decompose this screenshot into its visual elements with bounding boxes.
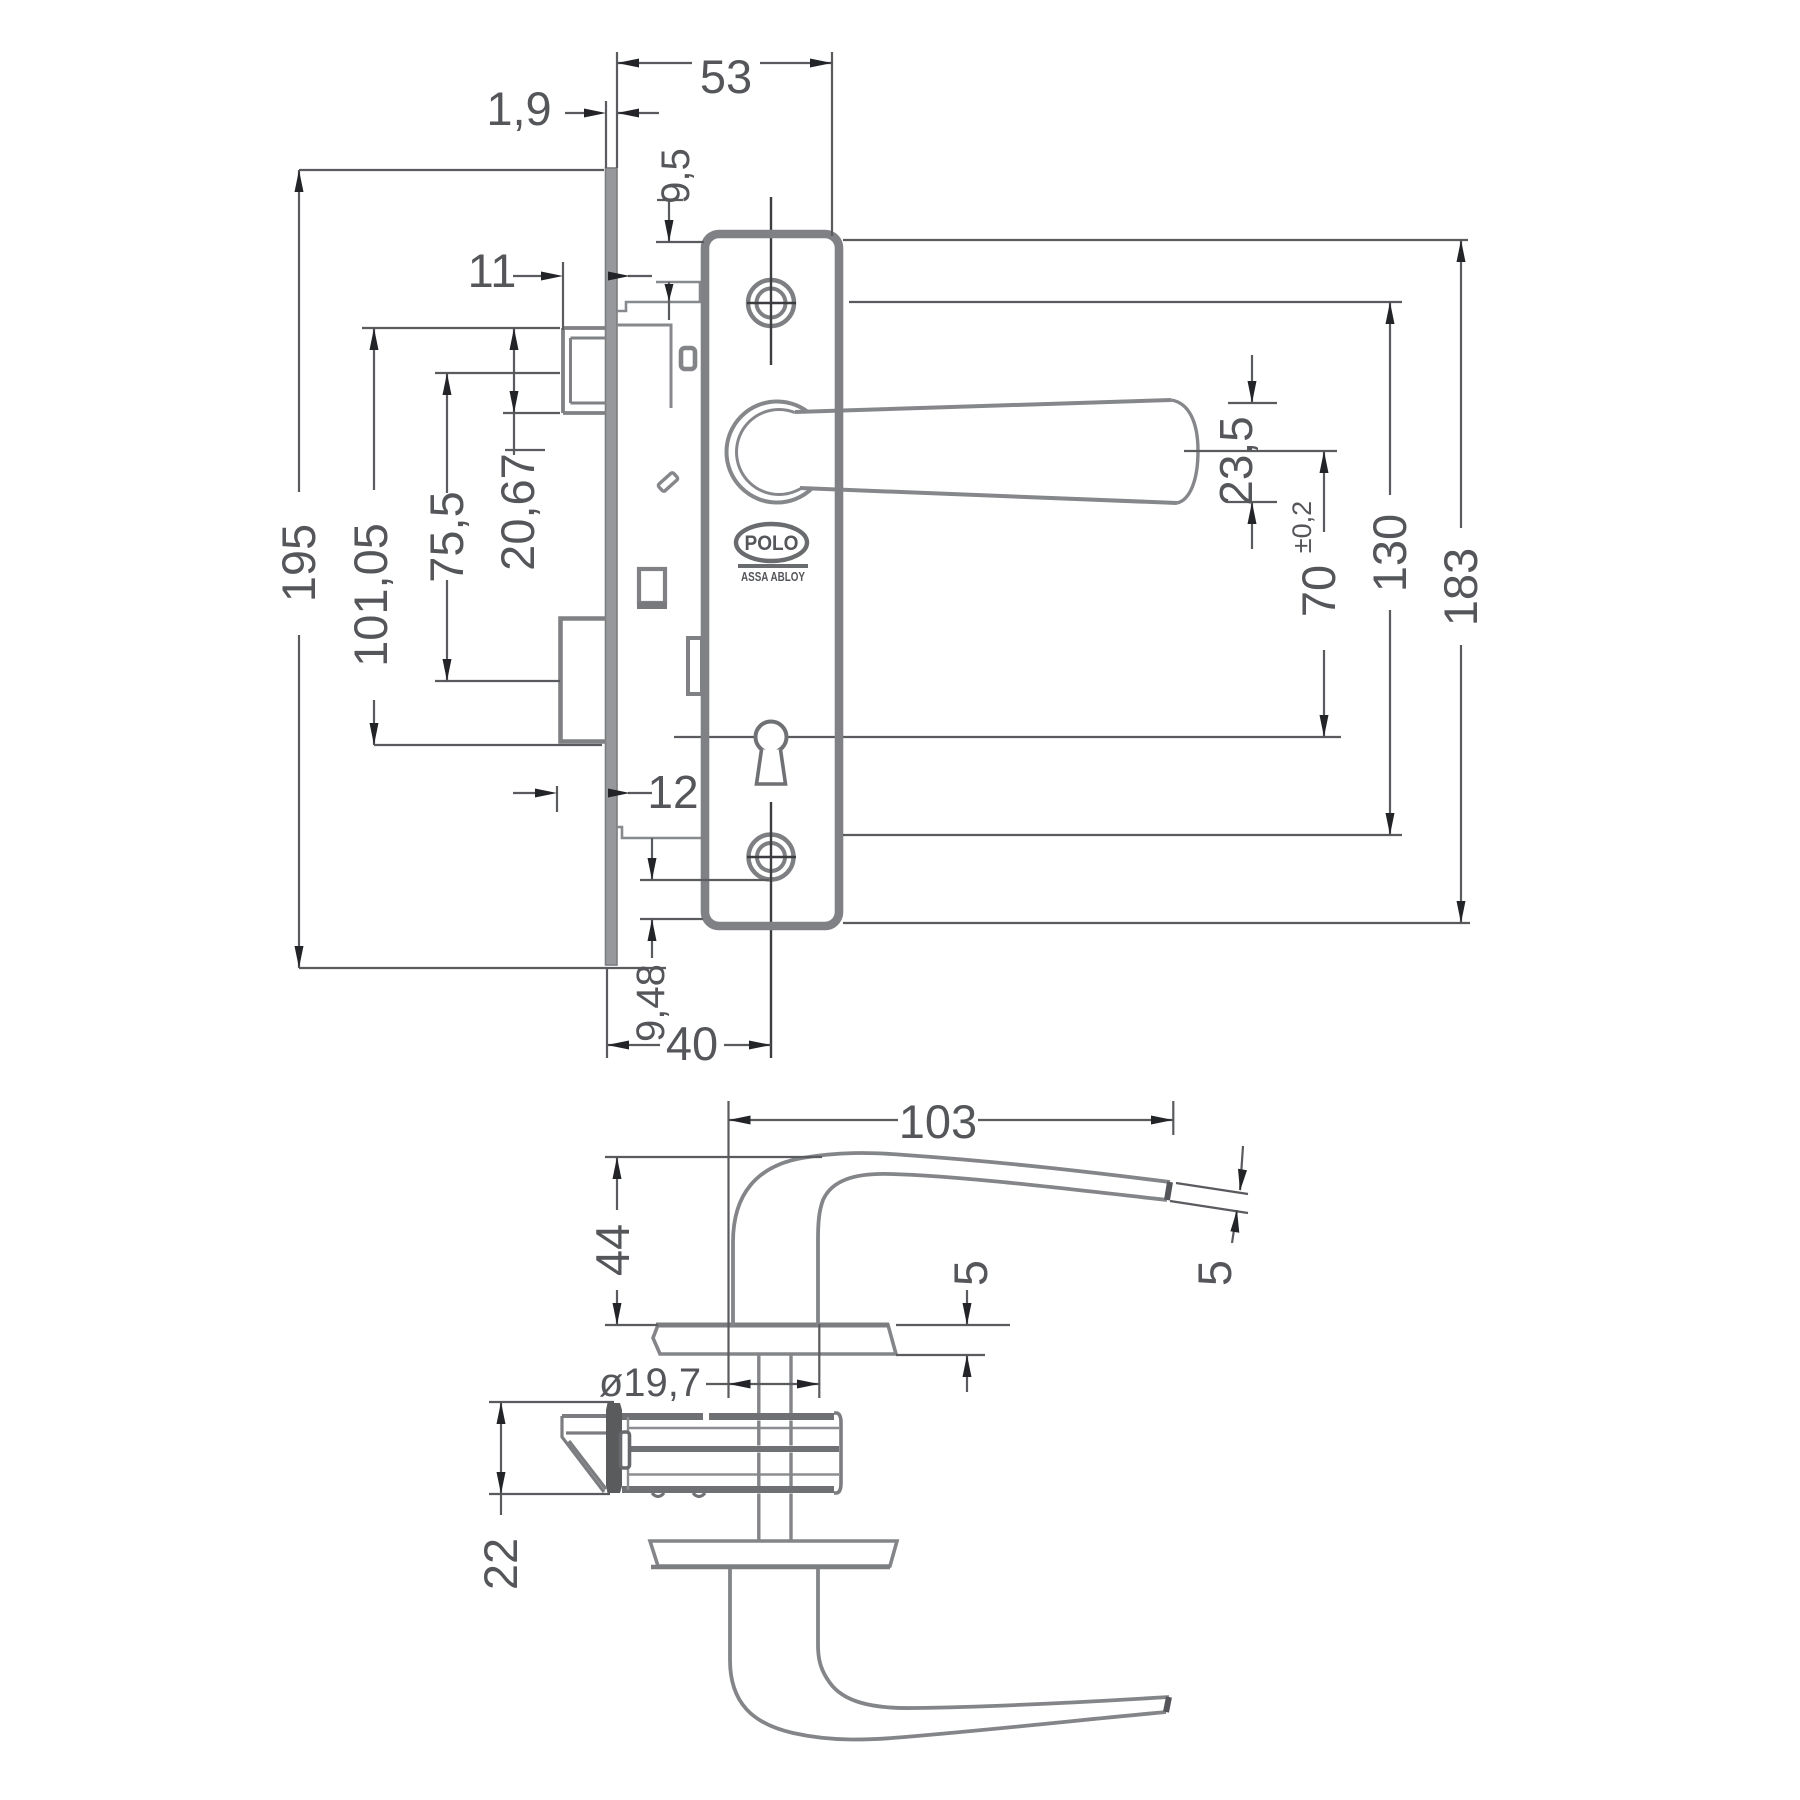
svg-text:103: 103	[899, 1095, 977, 1148]
lower handle (top view)	[730, 1569, 1166, 1740]
narrow slot near plate edge	[688, 638, 702, 694]
dim 12	[513, 766, 699, 818]
svg-text:130: 130	[1363, 514, 1416, 592]
svg-text:195: 195	[272, 524, 325, 602]
dim 1,9	[486, 82, 659, 168]
dim 70 +-0,2	[1184, 451, 1345, 737]
svg-text:22: 22	[474, 1538, 527, 1590]
lock case top profile	[617, 302, 704, 311]
POLO logo oval	[736, 524, 807, 561]
dim 9,5	[654, 148, 704, 320]
dim 9,48	[629, 838, 769, 1042]
dim 22	[474, 1402, 614, 1590]
grip neck inner circle	[737, 410, 822, 495]
small rounded slot in case	[681, 348, 695, 369]
dim 44	[586, 1157, 822, 1325]
upper handle tip face	[1167, 1182, 1170, 1200]
dim 103	[729, 1095, 1174, 1398]
svg-text:1,9: 1,9	[486, 82, 551, 135]
dim 75,5	[420, 373, 560, 681]
defs	[272, 50, 1487, 1740]
dim 23,5	[1210, 355, 1277, 549]
svg-text:5: 5	[944, 1260, 997, 1286]
upper rose (escutcheon edge view)	[653, 1325, 896, 1354]
handle backplate outline	[705, 234, 839, 926]
dim 101,05	[344, 328, 602, 745]
svg-text:183: 183	[1434, 548, 1487, 626]
spindle	[757, 1355, 760, 1541]
svg-text:12: 12	[647, 766, 698, 818]
svg-text:20,67: 20,67	[491, 453, 544, 571]
dim 195	[272, 170, 666, 968]
svg-text:ø19,7: ø19,7	[599, 1361, 701, 1405]
svg-text:ASSA ABLOY: ASSA ABLOY	[741, 569, 805, 584]
svg-text:101,05: 101,05	[344, 523, 397, 667]
keyhole	[756, 722, 787, 753]
lock body right end	[834, 1413, 841, 1493]
upper handle (top view)	[733, 1153, 1170, 1326]
dim 53	[617, 50, 832, 236]
handle backplate (long plate) fill	[705, 234, 839, 926]
latch bolt wedge (top view)	[562, 1414, 606, 1418]
dim 20,67	[491, 328, 560, 571]
svg-text:53: 53	[700, 50, 752, 103]
svg-text:70: 70	[1292, 565, 1345, 617]
lock body bottom bumps	[652, 1493, 705, 1497]
lock case hub top line	[656, 282, 700, 302]
lock case bottom profile	[617, 827, 704, 838]
70-dim extension line through keyhole	[674, 736, 1341, 738]
svg-text:23,5: 23,5	[1210, 416, 1262, 506]
svg-text:9,5: 9,5	[654, 148, 698, 204]
lock body (top view) white fill	[622, 1410, 840, 1493]
svg-text:75,5: 75,5	[420, 491, 473, 582]
lock body left edge	[627, 1417, 629, 1490]
svg-text:5: 5	[1188, 1260, 1241, 1286]
dim o19,7	[599, 1324, 819, 1405]
BOTTOMVIEW	[562, 1153, 1170, 1740]
latch guide slot	[621, 1432, 630, 1468]
dim 183	[843, 240, 1487, 923]
tilted slot in case	[658, 472, 679, 492]
follower axis tick	[505, 449, 545, 451]
svg-text:±0,2: ±0,2	[1287, 501, 1317, 553]
dim 40	[607, 968, 771, 1070]
lock body top edge	[622, 1413, 834, 1420]
top screw	[748, 280, 794, 326]
lever handle (front view)	[790, 400, 1198, 503]
svg-text:11: 11	[468, 244, 517, 297]
faceplate (mortise lock front plate, edge view)	[606, 168, 618, 965]
lock body inner lines	[627, 1427, 839, 1429]
grip neck outer circle	[727, 402, 828, 503]
latch bolt (side view)	[563, 328, 606, 413]
lock case inner step line	[617, 325, 671, 408]
svg-text:POLO: POLO	[745, 532, 799, 555]
lower rose	[650, 1541, 897, 1566]
bottom screw	[749, 835, 794, 880]
lock body bottom edge	[622, 1486, 834, 1493]
TOPVIEW	[505, 168, 1341, 1058]
dim 5 right (handle tip thickness)	[1170, 1146, 1248, 1286]
deadbolt (side view)	[561, 619, 607, 742]
dim 11	[468, 244, 652, 330]
faceplate bar (edge view)	[606, 1403, 622, 1493]
dim 5 center (rose thickness)	[896, 1260, 1010, 1392]
svg-text:40: 40	[666, 1017, 718, 1070]
dim 130	[843, 302, 1416, 835]
logo rule	[738, 564, 808, 568]
follower square opening	[639, 569, 665, 603]
lower handle tip face	[1166, 1697, 1169, 1712]
svg-text:44: 44	[586, 1224, 639, 1276]
